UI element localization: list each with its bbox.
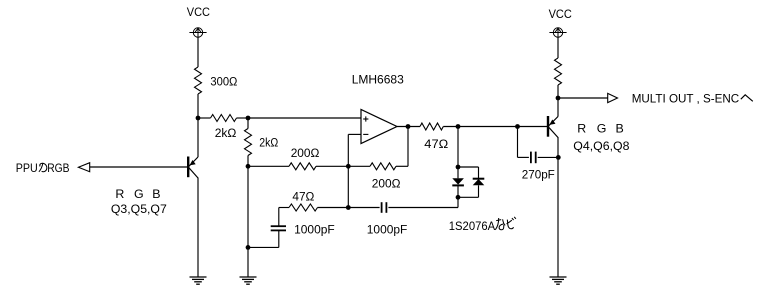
label R G B (Q3 group) bbox=[115, 187, 160, 201]
node C (R3 bottom junction) bbox=[246, 164, 251, 169]
node I (diode top junction) bbox=[456, 165, 461, 170]
svg-text:47Ω: 47Ω bbox=[292, 190, 314, 204]
label 1000pF (C2) bbox=[367, 223, 408, 237]
svg-text:G: G bbox=[134, 187, 144, 201]
svg-text:MULTI OUT , S-ENC: MULTI OUT , S-ENC bbox=[632, 92, 740, 106]
svg-text:200Ω: 200Ω bbox=[372, 176, 401, 190]
svg-text:1S2076A: 1S2076A bbox=[449, 219, 496, 233]
port arrow MULTI OUT (open triangle, points right) bbox=[608, 93, 618, 102]
wire node C to ground rail bbox=[247, 166, 249, 277]
capacitor C1 1000pF (vertical) bbox=[248, 208, 286, 248]
label MULTI OUT , S-ENC&#12408; bbox=[632, 92, 753, 106]
label 47&#937; (R6) bbox=[424, 137, 448, 151]
wire node M to output port bbox=[558, 97, 608, 99]
svg-text:VCC: VCC bbox=[549, 7, 572, 21]
ground (middle rail) bbox=[240, 277, 257, 284]
node L (C3 / Q4 collector rail) bbox=[556, 155, 561, 160]
svg-text:1000pF: 1000pF bbox=[294, 223, 335, 237]
svg-text:2kΩ: 2kΩ bbox=[259, 135, 278, 149]
svg-text:B: B bbox=[616, 121, 624, 135]
label PPU&#12398;RGB bbox=[16, 161, 70, 175]
wire node H down to diodes bbox=[457, 127, 459, 168]
label 200&#937; (R4) bbox=[291, 146, 320, 160]
resistor R8 (vertical, unlabeled) bbox=[555, 58, 562, 85]
transistor Q4 (PNP) bbox=[548, 116, 558, 138]
diode D2 (cathode up) bbox=[473, 179, 485, 198]
wire node K down to C3 bbox=[517, 127, 519, 158]
svg-text:270pF: 270pF bbox=[522, 167, 555, 181]
label Q4,Q6,Q8 bbox=[573, 139, 629, 153]
resistor R1 300&#937; (vertical) bbox=[195, 67, 202, 94]
label 2k&#937; (R3) bbox=[259, 135, 278, 149]
wire op-amp - input bbox=[348, 133, 361, 135]
svg-text:RGB: RGB bbox=[47, 161, 69, 175]
label 1000pF (C1) bbox=[294, 223, 335, 237]
wire VCC2 to R8 bbox=[557, 37, 559, 58]
svg-text:R: R bbox=[577, 121, 586, 135]
svg-text:B: B bbox=[152, 187, 160, 201]
diode D1 (cathode down) bbox=[452, 167, 464, 197]
wire node B to op-amp + input bbox=[248, 117, 361, 119]
label 270pF (C3) bbox=[522, 167, 555, 181]
svg-text:R: R bbox=[115, 187, 124, 201]
node M (output junction) bbox=[556, 96, 561, 101]
svg-text:VCC: VCC bbox=[187, 5, 210, 19]
label LMH6683 bbox=[352, 73, 404, 87]
wire Q3 base bbox=[90, 166, 187, 168]
wire node J to row D bbox=[457, 197, 459, 207]
wire op-amp output bbox=[397, 126, 420, 128]
power symbol VCC (right) bbox=[549, 28, 566, 37]
wire R8 to node M bbox=[557, 85, 559, 98]
label 1S2076A&#12394;&#12393; bbox=[449, 217, 516, 233]
node E (feedback junction at - input) bbox=[346, 164, 351, 169]
svg-text:47Ω: 47Ω bbox=[424, 137, 448, 151]
ground (Q4) bbox=[550, 277, 567, 284]
resistor R2 2k&#937; (horizontal) bbox=[198, 115, 248, 122]
label Q3,Q5,Q7 bbox=[111, 202, 167, 216]
svg-text:G: G bbox=[597, 121, 607, 135]
wire R6 to Q4 base bbox=[443, 126, 547, 128]
wire R1 to node A bbox=[197, 94, 199, 118]
label R G B (Q4 group) bbox=[577, 121, 624, 135]
op-amp U1 LMH6683 bbox=[361, 110, 397, 144]
port arrow PPU RGB (open triangle, points left) bbox=[78, 163, 89, 172]
svg-text:Q4,Q6,Q8: Q4,Q6,Q8 bbox=[573, 139, 629, 153]
resistor R6 47&#937; (op-amp output series) bbox=[420, 123, 443, 130]
node J (diode bottom junction) bbox=[456, 195, 461, 200]
wire diode top link bbox=[458, 167, 479, 179]
svg-text:1000pF: 1000pF bbox=[367, 223, 408, 237]
node D (C1 return junction) bbox=[246, 245, 251, 250]
wire VCC1 to R1 bbox=[197, 37, 199, 67]
resistor R3 2k&#937; (vertical) bbox=[245, 118, 252, 166]
wire diode bottom link bbox=[458, 196, 479, 198]
label VCC (left) bbox=[187, 5, 210, 19]
resistor R7 47&#937; bbox=[279, 204, 349, 211]
svg-text:LMH6683: LMH6683 bbox=[352, 73, 404, 87]
transistor Q3 (PNP) bbox=[188, 157, 198, 179]
ground (Q3 collector) bbox=[190, 277, 207, 284]
power symbol VCC (left) bbox=[189, 28, 206, 37]
svg-text:Q3,Q5,Q7: Q3,Q5,Q7 bbox=[111, 202, 167, 216]
node G (row D junction) bbox=[346, 205, 351, 210]
label 47&#937; (R7) bbox=[292, 190, 314, 204]
svg-text:PPU: PPU bbox=[16, 161, 38, 175]
wire Q3 collector to ground bbox=[197, 178, 199, 278]
wire Q4 emitter up to node M bbox=[557, 98, 559, 117]
label 2k&#937; (R2) bbox=[215, 126, 237, 140]
node A (R1/R2/Q3 emitter junction) bbox=[196, 116, 201, 121]
label 200&#937; (R5) bbox=[372, 176, 401, 190]
wire output down to R5 bbox=[396, 127, 408, 167]
resistor R4 200&#937; (node C to feedback node) bbox=[248, 163, 348, 170]
node F (output node) bbox=[406, 124, 411, 129]
node H (diode tap) bbox=[456, 124, 461, 129]
node B (R2/R3/op-amp + input) bbox=[246, 116, 251, 121]
wire Q3 emitter to node A bbox=[197, 118, 199, 157]
svg-text:2kΩ: 2kΩ bbox=[215, 126, 237, 140]
capacitor C2 1000pF (horizontal) bbox=[348, 202, 458, 213]
capacitor C3 270pF bbox=[518, 152, 559, 164]
label VCC (right) bbox=[549, 7, 572, 21]
svg-text:300Ω: 300Ω bbox=[210, 75, 237, 89]
resistor R5 200&#937; (feedback) bbox=[348, 163, 396, 170]
svg-text:200Ω: 200Ω bbox=[291, 146, 320, 160]
node K (C3 tap / Q4 base) bbox=[515, 124, 520, 129]
label 300&#937; bbox=[210, 75, 237, 89]
wire - input down to feedback rows bbox=[347, 134, 349, 207]
wire Q4 collector down to ground bbox=[557, 137, 559, 277]
